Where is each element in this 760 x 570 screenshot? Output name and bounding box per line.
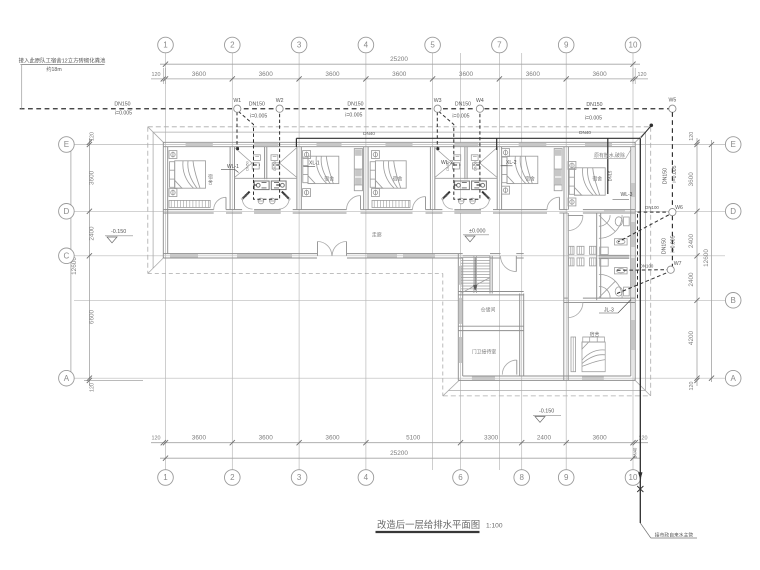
svg-text:25200: 25200	[390, 56, 408, 63]
svg-text:DN150: DN150	[663, 168, 669, 184]
svg-text:C: C	[64, 252, 70, 261]
svg-text:i=0.005: i=0.005	[115, 111, 132, 117]
svg-text:DN150: DN150	[586, 102, 602, 108]
svg-text:8: 8	[519, 473, 524, 482]
svg-text:120: 120	[152, 72, 161, 78]
svg-text:B: B	[731, 296, 736, 305]
svg-text:i=0.005: i=0.005	[585, 116, 602, 122]
svg-text:宿舍: 宿舍	[393, 176, 403, 183]
svg-text:DN150: DN150	[455, 102, 471, 108]
svg-text:1: 1	[163, 473, 168, 482]
svg-text:WL-3: WL-3	[621, 192, 633, 198]
svg-text:4: 4	[364, 473, 369, 482]
svg-text:舍: 舍	[208, 179, 213, 186]
svg-text:接入此原队工宿舍12立方砖砌化粪池: 接入此原队工宿舍12立方砖砌化粪池	[19, 57, 106, 65]
svg-text:9: 9	[564, 473, 569, 482]
svg-text:W1: W1	[233, 98, 241, 104]
svg-text:3600: 3600	[592, 71, 607, 78]
svg-text:XL-2: XL-2	[506, 160, 517, 166]
svg-text:3600: 3600	[89, 170, 96, 185]
svg-text:W5: W5	[669, 98, 677, 104]
svg-text:接市政自来水主管: 接市政自来水主管	[655, 531, 694, 538]
svg-text:i=0.005: i=0.005	[672, 165, 678, 182]
svg-text:120: 120	[638, 72, 647, 78]
svg-text:W6: W6	[675, 205, 683, 211]
svg-text:25200: 25200	[390, 450, 408, 457]
svg-text:2400: 2400	[89, 226, 96, 241]
svg-text:E: E	[64, 140, 69, 149]
svg-text:DN15: DN15	[607, 170, 612, 181]
svg-text:2: 2	[230, 473, 235, 482]
svg-text:3600: 3600	[192, 71, 207, 78]
svg-text:120: 120	[90, 383, 96, 392]
svg-text:12600: 12600	[703, 249, 710, 267]
svg-text:宿: 宿	[208, 174, 213, 181]
svg-text:120: 120	[689, 132, 695, 141]
svg-text:DN150: DN150	[347, 102, 363, 108]
svg-text:i=0.005: i=0.005	[250, 114, 267, 120]
svg-text:D: D	[64, 207, 70, 216]
svg-text:10: 10	[629, 473, 638, 482]
svg-text:WL-2: WL-2	[441, 160, 453, 166]
svg-text:3600: 3600	[526, 71, 541, 78]
svg-text:3600: 3600	[259, 71, 274, 78]
svg-text:W7: W7	[674, 261, 682, 267]
svg-text:宿舍: 宿舍	[324, 176, 334, 183]
svg-text:4: 4	[364, 41, 369, 50]
svg-text:3: 3	[297, 41, 302, 50]
svg-text:2: 2	[230, 41, 235, 50]
svg-text:3600: 3600	[325, 71, 340, 78]
svg-text:i=0.005: i=0.005	[452, 114, 469, 120]
svg-text:W2: W2	[276, 98, 284, 104]
svg-text:1:100: 1:100	[486, 523, 503, 530]
svg-text:DN150: DN150	[114, 102, 130, 108]
svg-text:±0.000: ±0.000	[469, 228, 485, 234]
svg-text:JL-3: JL-3	[604, 308, 614, 314]
svg-text:DN100: DN100	[645, 205, 659, 210]
svg-text:DN100: DN100	[640, 264, 654, 269]
svg-text:宿舍: 宿舍	[592, 176, 602, 183]
svg-text:2400: 2400	[688, 233, 695, 248]
svg-text:2400: 2400	[688, 272, 695, 287]
svg-text:宿舍: 宿舍	[525, 175, 535, 182]
svg-text:宿舍: 宿舍	[590, 331, 600, 338]
svg-text:W3: W3	[434, 98, 442, 104]
svg-text:1: 1	[163, 41, 168, 50]
svg-text:3600: 3600	[259, 435, 274, 442]
svg-text:6600: 6600	[89, 309, 96, 324]
svg-text:-0.150: -0.150	[539, 409, 554, 415]
svg-text:A: A	[731, 374, 737, 383]
svg-text:D: D	[730, 207, 736, 216]
svg-text:-0.150: -0.150	[111, 229, 126, 235]
svg-text:3600: 3600	[688, 172, 695, 187]
svg-text:改造后一层给排水平面图: 改造后一层给排水平面图	[377, 519, 480, 530]
svg-text:门卫接待室: 门卫接待室	[472, 349, 497, 356]
svg-text:120: 120	[90, 132, 96, 141]
svg-text:约18m: 约18m	[46, 65, 61, 73]
svg-text:3600: 3600	[192, 435, 207, 442]
svg-text:DN150: DN150	[249, 102, 265, 108]
svg-text:7: 7	[497, 41, 502, 50]
svg-text:原有散水,破除: 原有散水,破除	[594, 152, 625, 159]
svg-text:3300: 3300	[484, 435, 499, 442]
svg-text:2400: 2400	[537, 435, 552, 442]
svg-text:3600: 3600	[592, 435, 607, 442]
svg-text:A: A	[64, 374, 70, 383]
svg-text:9: 9	[564, 41, 569, 50]
svg-text:走廊: 走廊	[372, 232, 382, 239]
svg-text:3: 3	[297, 473, 302, 482]
svg-text:i=0.005: i=0.005	[345, 113, 362, 119]
svg-text:E: E	[731, 140, 736, 149]
svg-text:XL-1: XL-1	[309, 160, 320, 166]
svg-text:i=0.005: i=0.005	[671, 235, 677, 252]
svg-text:4200: 4200	[688, 330, 695, 345]
svg-text:3600: 3600	[325, 435, 340, 442]
svg-text:5100: 5100	[406, 435, 421, 442]
svg-text:10: 10	[629, 41, 638, 50]
svg-text:W4: W4	[476, 98, 484, 104]
svg-text:120: 120	[152, 436, 161, 442]
svg-text:6: 6	[458, 473, 463, 482]
svg-text:120: 120	[689, 382, 695, 391]
svg-text:5: 5	[430, 41, 435, 50]
svg-text:DN40: DN40	[363, 131, 375, 136]
svg-text:3600: 3600	[459, 71, 474, 78]
svg-text:仓储间: 仓储间	[481, 307, 496, 314]
svg-text:DN40: DN40	[633, 447, 638, 458]
svg-text:3600: 3600	[392, 71, 407, 78]
svg-text:DN40: DN40	[579, 130, 591, 135]
svg-text:DN150: DN150	[662, 238, 668, 254]
